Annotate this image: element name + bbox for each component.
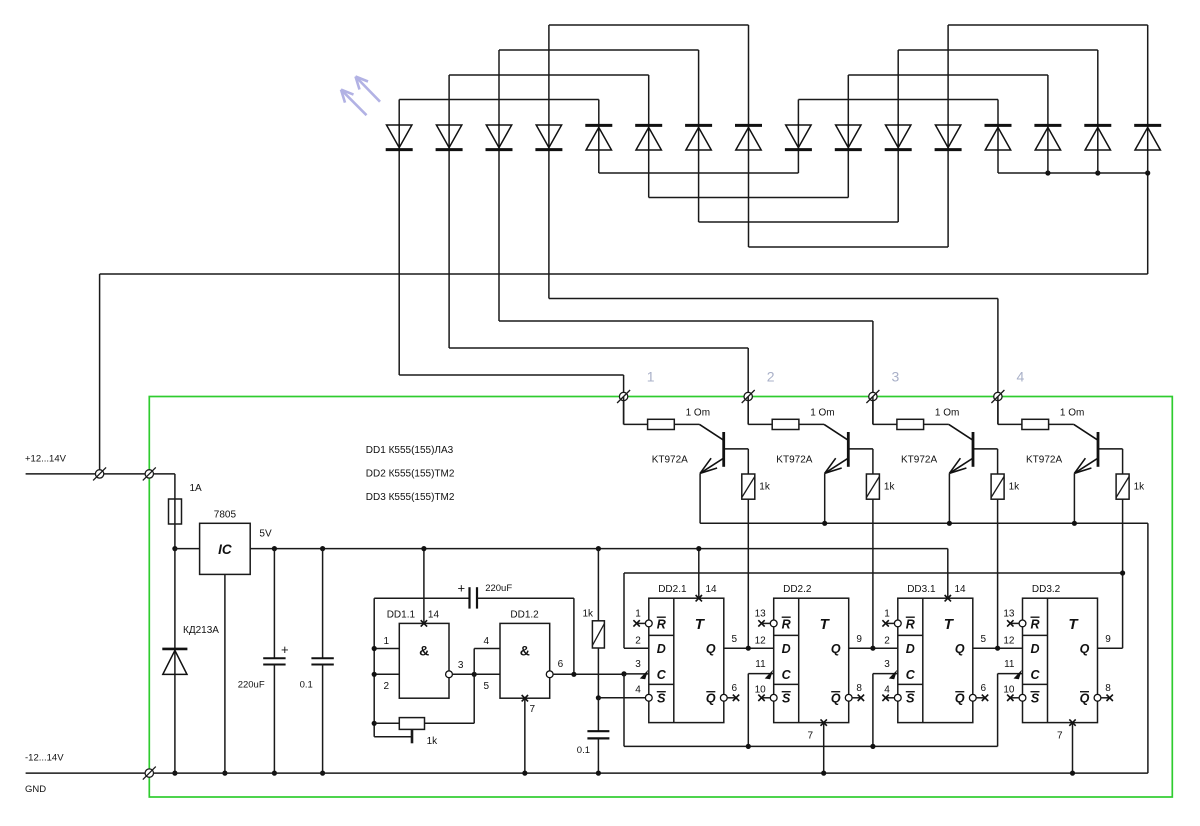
wire top pair LED4-LED8 bbox=[549, 24, 749, 26]
flip-flop DD3.2 bbox=[1023, 598, 1098, 722]
LED HL9 bbox=[785, 124, 812, 151]
pin Qbar output DD2.1 bbox=[720, 694, 727, 701]
svg-text:C: C bbox=[1030, 668, 1040, 682]
svg-text:R: R bbox=[782, 617, 791, 631]
svg-text:14: 14 bbox=[706, 584, 718, 595]
wire 5V rail bbox=[250, 548, 948, 550]
svg-text:KT972A: KT972A bbox=[901, 455, 937, 466]
wire IC ground pin bbox=[224, 574, 226, 773]
svg-text:12: 12 bbox=[755, 636, 767, 647]
svg-text:5: 5 bbox=[981, 634, 987, 645]
capacitor 0.1 power-on set bbox=[597, 698, 599, 731]
svg-text:Q: Q bbox=[1080, 642, 1090, 656]
svg-text:1k: 1k bbox=[884, 482, 896, 493]
svg-text:8: 8 bbox=[856, 683, 862, 694]
svg-text:9: 9 bbox=[1105, 634, 1111, 645]
svg-text:Q: Q bbox=[1080, 692, 1090, 706]
wire channel 1 to resistor bbox=[623, 397, 625, 425]
pin 7 DD1.2 bbox=[522, 695, 528, 701]
LED HL16 bbox=[1134, 124, 1161, 151]
svg-text:Q: Q bbox=[831, 642, 841, 656]
wire right bus vertical bbox=[1147, 173, 1149, 274]
pin R input DD3.2 bbox=[1019, 620, 1026, 627]
connector slash channel 1 bbox=[617, 390, 630, 403]
svg-text:DD1.2: DD1.2 bbox=[510, 610, 539, 621]
pin Qbar output DD2.2 bbox=[845, 694, 852, 701]
wire clock bus bbox=[624, 745, 998, 747]
LED emission arrows bbox=[341, 77, 380, 116]
wire +12V input bbox=[26, 473, 175, 475]
svg-text:220uF: 220uF bbox=[238, 680, 265, 691]
svg-text:Q: Q bbox=[955, 642, 965, 656]
pin R input DD3.1 bbox=[894, 620, 901, 627]
svg-text:Q: Q bbox=[706, 692, 716, 706]
svg-text:+: + bbox=[281, 642, 289, 657]
resistor 1k pull-up S bbox=[596, 546, 601, 551]
wire bottom link LED5-LED9 bbox=[599, 172, 799, 174]
svg-text:7805: 7805 bbox=[214, 510, 237, 521]
junction emitter channel 2 bbox=[822, 521, 827, 526]
wire top pair LED1-LED5 bbox=[399, 99, 599, 101]
resistor 1 Om channel 1 bbox=[648, 419, 675, 429]
svg-text:5: 5 bbox=[483, 681, 489, 692]
LED HL15 bbox=[1084, 124, 1111, 151]
connector slash GND at green border bbox=[143, 767, 156, 780]
wire S node to DD2.1 bbox=[598, 697, 645, 699]
svg-text:5V: 5V bbox=[259, 529, 272, 540]
NAND gate DD1.1 bbox=[399, 623, 449, 698]
svg-text:KT972A: KT972A bbox=[652, 455, 688, 466]
wire DD1.2 output node 6 clock bbox=[546, 671, 553, 678]
svg-text:220uF: 220uF bbox=[485, 583, 512, 594]
transistor Q2 KT972A bbox=[824, 424, 873, 473]
resistor 1k channel 3 bbox=[991, 474, 1004, 499]
wire top pair LED3-LED7 bbox=[499, 49, 699, 51]
svg-text:14: 14 bbox=[955, 584, 967, 595]
svg-text:3: 3 bbox=[458, 660, 464, 671]
svg-text:1 Om: 1 Om bbox=[1060, 408, 1084, 419]
svg-text:2: 2 bbox=[767, 369, 775, 385]
pin R input DD2.1 bbox=[645, 620, 652, 627]
wire LED2 cathode to channel 2 bbox=[448, 150, 450, 348]
wire LED16 anode lead bbox=[1147, 150, 1149, 173]
svg-text:0.1: 0.1 bbox=[300, 680, 313, 691]
wire LED4 cathode to channel 4 bbox=[548, 150, 550, 299]
svg-text:11: 11 bbox=[1004, 659, 1015, 670]
pin 7 DD2.2 bbox=[821, 719, 827, 725]
pin C input DD3.1 bbox=[889, 670, 897, 680]
wire top pair LED10-LED14 bbox=[848, 74, 1048, 76]
resistor 1k channel 4 bbox=[1116, 474, 1129, 499]
LED HL7 bbox=[685, 124, 712, 151]
wire Q4 up to feedback bbox=[1098, 647, 1123, 649]
svg-text:C: C bbox=[782, 668, 792, 682]
svg-text:DD2.2: DD2.2 bbox=[783, 584, 812, 595]
svg-text:0.1: 0.1 bbox=[577, 745, 590, 756]
wire DD1.1 input pins bbox=[374, 648, 399, 650]
svg-text:1k: 1k bbox=[582, 609, 594, 620]
resistor 1 Om channel 3 bbox=[897, 419, 924, 429]
svg-text:3: 3 bbox=[892, 369, 900, 385]
svg-text:D: D bbox=[906, 642, 915, 656]
svg-text:6: 6 bbox=[732, 683, 738, 694]
IC 7805 voltage regulator bbox=[200, 523, 251, 574]
svg-text:DD2 К555(155)ТМ2: DD2 К555(155)ТМ2 bbox=[366, 469, 455, 480]
wire +12V feed line to LED anode bus bbox=[100, 273, 1148, 275]
svg-text:C: C bbox=[906, 668, 916, 682]
wire top pair LED9-LED13 bbox=[798, 99, 998, 101]
capacitor 220uF oscillator bbox=[374, 597, 469, 599]
svg-text:KT972A: KT972A bbox=[776, 455, 812, 466]
svg-text:Q: Q bbox=[955, 692, 965, 706]
wire R2 to flip-flop Q bbox=[872, 499, 874, 648]
LED HL1 bbox=[386, 124, 413, 151]
svg-text:1 Om: 1 Om bbox=[686, 408, 710, 419]
wire +12V riser at left bbox=[99, 274, 101, 474]
LED HL5 bbox=[585, 124, 612, 151]
svg-text:9: 9 bbox=[856, 634, 862, 645]
svg-text:4: 4 bbox=[635, 685, 641, 696]
wire clock riser C2 bbox=[747, 674, 749, 747]
wire emitter channel 1 bbox=[699, 473, 701, 523]
pin S input DD3.1 bbox=[894, 694, 901, 701]
LED HL14 bbox=[1034, 124, 1061, 151]
svg-text:DD1.1: DD1.1 bbox=[387, 610, 416, 621]
wire feedback Q4 to D1 bbox=[624, 572, 1123, 574]
wire Q3 to D4 bbox=[973, 647, 1023, 649]
svg-text:S: S bbox=[782, 692, 791, 706]
transistor Q3 KT972A bbox=[949, 424, 998, 473]
pin C input DD2.1 bbox=[640, 670, 648, 680]
wire channel 4 to resistor bbox=[997, 397, 999, 425]
wire resistor to transistor collector bbox=[1049, 423, 1074, 425]
svg-text:R: R bbox=[1030, 617, 1039, 631]
svg-text:+: + bbox=[458, 581, 466, 596]
svg-text:DD3.1: DD3.1 bbox=[907, 584, 936, 595]
pin 14 DD2.1 bbox=[696, 595, 702, 601]
junction clock node bbox=[621, 671, 626, 676]
svg-text:6: 6 bbox=[981, 683, 987, 694]
wire channel 3 to resistor bbox=[872, 397, 874, 425]
resistor 1 Om channel 2 bbox=[772, 419, 799, 429]
svg-text:4: 4 bbox=[884, 685, 890, 696]
svg-text:6: 6 bbox=[558, 659, 564, 670]
wire to fuse bbox=[174, 474, 176, 549]
svg-text:IC: IC bbox=[218, 542, 232, 557]
wire R3 to flip-flop Q bbox=[997, 499, 999, 648]
svg-text:D: D bbox=[1030, 642, 1039, 656]
wire resistor to transistor collector bbox=[924, 423, 949, 425]
svg-text:D: D bbox=[782, 642, 791, 656]
svg-text:-12...14V: -12...14V bbox=[25, 753, 64, 764]
wire bottom link LED7-LED11 bbox=[699, 221, 899, 223]
wire DD1.2 inputs bbox=[474, 648, 500, 650]
junction LED16 anode bbox=[1145, 170, 1150, 175]
svg-text:&: & bbox=[419, 643, 429, 659]
svg-text:1: 1 bbox=[383, 636, 389, 647]
svg-text:D: D bbox=[657, 642, 666, 656]
pin S input DD3.2 bbox=[1019, 694, 1026, 701]
LED HL3 bbox=[486, 124, 513, 151]
svg-text:8: 8 bbox=[1105, 683, 1111, 694]
svg-text:Q: Q bbox=[831, 692, 841, 706]
resistor 1k feedback rheostat bbox=[473, 674, 475, 723]
pin C input DD3.2 bbox=[1014, 670, 1022, 680]
svg-text:S: S bbox=[657, 692, 666, 706]
transistor Q1 KT972A bbox=[700, 424, 749, 473]
svg-text:GND: GND bbox=[25, 784, 46, 795]
resistor 1 Om channel 4 bbox=[1022, 419, 1049, 429]
pin 7 DD3.2 bbox=[1069, 719, 1075, 725]
svg-text:R: R bbox=[657, 617, 666, 631]
capacitor 220uF filter bbox=[272, 546, 277, 551]
wire clock riser C3 bbox=[872, 674, 874, 747]
wire resistor to transistor collector bbox=[799, 423, 824, 425]
svg-text:2: 2 bbox=[635, 636, 641, 647]
LED HL8 bbox=[735, 124, 762, 151]
svg-text:1A: 1A bbox=[190, 483, 203, 494]
wire Q2 to D3 bbox=[849, 647, 898, 649]
svg-text:1 Om: 1 Om bbox=[935, 408, 959, 419]
junction emitter channel 4 bbox=[1072, 521, 1077, 526]
pin 14 DD3.1 bbox=[945, 595, 951, 601]
connector slash channel 3 bbox=[866, 390, 879, 403]
svg-text:1: 1 bbox=[635, 609, 641, 620]
svg-text:+12...14V: +12...14V bbox=[25, 454, 67, 465]
wire bottom link LED8-LED12 bbox=[749, 246, 949, 248]
wire Q1 to D2 bbox=[724, 647, 774, 649]
svg-text:1k: 1k bbox=[427, 736, 439, 747]
wire LED13-16 anode bus bbox=[998, 172, 1148, 174]
wire LED1 cathode to channel 1 bbox=[398, 150, 400, 375]
svg-text:13: 13 bbox=[755, 609, 767, 620]
svg-text:1k: 1k bbox=[1009, 482, 1021, 493]
pin S input DD2.1 bbox=[645, 694, 652, 701]
svg-text:7: 7 bbox=[1057, 731, 1063, 742]
svg-text:1: 1 bbox=[647, 369, 655, 385]
pin S input DD2.2 bbox=[770, 694, 777, 701]
svg-text:C: C bbox=[657, 668, 667, 682]
pin Qbar output DD3.2 bbox=[1094, 694, 1101, 701]
svg-text:4: 4 bbox=[1017, 369, 1025, 385]
LED HL11 bbox=[885, 124, 912, 151]
resistor 1k channel 1 bbox=[742, 474, 755, 499]
svg-text:10: 10 bbox=[755, 685, 767, 696]
svg-text:R: R bbox=[906, 617, 915, 631]
svg-text:1: 1 bbox=[884, 609, 890, 620]
wire base to resistor R2 bbox=[872, 449, 874, 474]
capacitor 0.1 filter bbox=[320, 546, 325, 551]
svg-text:1k: 1k bbox=[759, 482, 771, 493]
LED HL4 bbox=[535, 124, 562, 151]
svg-text:14: 14 bbox=[428, 610, 440, 621]
svg-text:DD2.1: DD2.1 bbox=[658, 584, 687, 595]
junction fuse to IC input bbox=[172, 546, 177, 551]
wire channel 2 to resistor bbox=[747, 397, 749, 425]
pin R input DD2.2 bbox=[770, 620, 777, 627]
svg-text:DD3 К555(155)ТМ2: DD3 К555(155)ТМ2 bbox=[366, 492, 455, 503]
flip-flop DD3.1 bbox=[898, 598, 973, 722]
svg-text:2: 2 bbox=[884, 636, 890, 647]
svg-text:&: & bbox=[520, 643, 530, 659]
fuse 1A bbox=[169, 499, 182, 524]
connector slash on +12V line bbox=[93, 467, 106, 480]
LED HL12 bbox=[935, 124, 962, 151]
svg-text:4: 4 bbox=[483, 636, 489, 647]
svg-text:Q: Q bbox=[706, 642, 716, 656]
connector slash channel 2 bbox=[742, 390, 755, 403]
svg-text:7: 7 bbox=[530, 704, 536, 715]
wire top pair LED11-LED15 bbox=[898, 49, 1098, 51]
svg-text:10: 10 bbox=[1003, 685, 1015, 696]
wire R1 to flip-flop Q bbox=[747, 499, 749, 648]
wire base to resistor R1 bbox=[747, 449, 749, 474]
connector slash channel 4 bbox=[991, 390, 1004, 403]
svg-text:2: 2 bbox=[383, 681, 389, 692]
wire top pair LED12-LED16 bbox=[948, 24, 1148, 26]
svg-text:S: S bbox=[906, 692, 915, 706]
wire LED15 anode lead bbox=[1097, 150, 1099, 173]
resistor 1k channel 2 bbox=[866, 474, 879, 499]
connector slash +12V at green border bbox=[143, 467, 156, 480]
wire LED14 anode lead bbox=[1047, 150, 1049, 173]
junction LED14 anode bbox=[1045, 170, 1050, 175]
wire D1 from feedback bbox=[624, 647, 649, 649]
wire DD1.1 output node 3 bbox=[446, 671, 453, 678]
transistor Q4 KT972A bbox=[1074, 424, 1123, 473]
pin 14 DD1.1 bbox=[421, 620, 427, 626]
wire ground bus bbox=[26, 772, 1148, 774]
wire R4 to flip-flop Q bbox=[1122, 499, 1124, 573]
svg-text:1k: 1k bbox=[1134, 482, 1146, 493]
LED HL6 bbox=[635, 124, 662, 151]
wire top pair LED2-LED6 bbox=[449, 74, 649, 76]
wire LED13 anode lead bbox=[997, 150, 999, 173]
svg-text:3: 3 bbox=[635, 659, 641, 670]
wire base to resistor R4 bbox=[1122, 449, 1124, 474]
pin C input DD2.2 bbox=[765, 670, 773, 680]
LED HL2 bbox=[436, 124, 463, 151]
wire emitter channel 3 bbox=[948, 473, 950, 523]
LED HL13 bbox=[985, 124, 1012, 151]
svg-text:DD1 К555(155)ЛА3: DD1 К555(155)ЛА3 bbox=[366, 445, 454, 456]
wire LED3 cathode to channel 3 bbox=[498, 150, 500, 321]
svg-text:13: 13 bbox=[1003, 609, 1015, 620]
wire emitter ground bus bbox=[700, 522, 1148, 524]
svg-text:5: 5 bbox=[732, 634, 738, 645]
svg-text:12: 12 bbox=[1003, 636, 1015, 647]
NAND gate DD1.2 bbox=[500, 623, 550, 698]
wire emitter channel 4 bbox=[1073, 473, 1075, 523]
svg-text:DD3.2: DD3.2 bbox=[1032, 584, 1061, 595]
svg-text:3: 3 bbox=[884, 659, 890, 670]
LED HL10 bbox=[835, 124, 862, 151]
green border box bbox=[149, 397, 1172, 798]
wire base to resistor R3 bbox=[997, 449, 999, 474]
wire clock riser C4 bbox=[997, 674, 999, 747]
flip-flop DD2.2 bbox=[774, 598, 849, 722]
junction LED15 anode bbox=[1095, 170, 1100, 175]
wire emitter channel 2 bbox=[824, 473, 826, 523]
flip-flop DD2.1 bbox=[649, 598, 724, 722]
svg-text:7: 7 bbox=[807, 731, 813, 742]
wire bottom link LED6-LED10 bbox=[649, 197, 849, 199]
junction emitter channel 3 bbox=[947, 521, 952, 526]
pin Qbar output DD3.1 bbox=[969, 694, 976, 701]
wire clock to C1 and bus bbox=[624, 673, 649, 675]
svg-text:S: S bbox=[1031, 692, 1040, 706]
svg-text:11: 11 bbox=[755, 659, 766, 670]
svg-text:КД213А: КД213А bbox=[183, 625, 219, 636]
svg-text:1 Om: 1 Om bbox=[810, 408, 834, 419]
svg-text:KT972A: KT972A bbox=[1026, 455, 1062, 466]
wire resistor to transistor collector bbox=[674, 423, 699, 425]
